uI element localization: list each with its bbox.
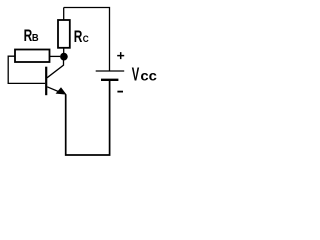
svg-text:cc: cc	[140, 67, 157, 83]
svg-text:B: B	[32, 33, 39, 44]
svg-text:R: R	[74, 28, 83, 46]
svg-text:C: C	[83, 34, 89, 44]
svg-text:V: V	[132, 64, 140, 84]
